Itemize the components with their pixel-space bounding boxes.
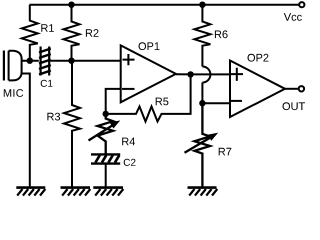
label R2 [86,29,99,37]
wire: MIC upper terminal to node A [21,60,39,62]
wire: OP2 output [285,88,299,90]
wire: MIC lower terminal to ground [21,74,30,187]
junction: R6 top on Vcc rail [199,1,205,7]
ground (MIC) [16,188,45,196]
label OP2 [248,54,269,62]
label R1 [41,24,54,32]
node A: junction MIC/R1/C1 [27,58,33,64]
label Vcc [284,13,302,21]
terminal Vcc [299,2,304,7]
variable resistor R7 [185,103,219,186]
label R4 [122,138,135,146]
ground (C2) [93,188,123,196]
label R5 [156,98,169,106]
wire: Vcc top rail [30,4,300,6]
wire: C1 to node B and OP1 + input [50,60,121,62]
resistor R1 [22,5,38,61]
node D: junction OP1 out / R5 / OP2+ [187,71,193,77]
junction: R2 top on Vcc rail [68,1,74,7]
node C: feedback junction R5/R4/OP1- [103,111,109,117]
wire: node E to OP2 - input [202,102,230,104]
wire: node D to OP2 + input (passes under hop) [191,73,230,75]
resistor R5 [106,75,191,122]
label R6 [215,30,228,38]
resistor R2 [64,5,80,61]
terminal OUT [299,86,304,91]
wire: C2 to ground [105,164,107,187]
op-amp OP1 [121,45,176,102]
ground (R3) [61,188,91,196]
node B: junction C1/R2/R3/OP1+ [68,58,74,64]
capacitor C1 [39,47,51,76]
wire: OP1 output to node D [176,73,191,75]
capacitor C2 [91,154,120,163]
variable resistor R4 [89,114,121,154]
wire: OP1 inverting input from feedback node [106,89,121,114]
label OUT [283,102,306,110]
microphone MIC body [3,51,22,81]
wire: hop to node E [201,83,203,104]
label C2 [124,159,136,166]
wire hop: R6 line over OP1-OP2 wire [202,67,210,83]
op-amp OP2 [230,61,285,118]
label OP1 [139,42,160,50]
label R3 [47,113,60,121]
ground (R7) [188,188,218,196]
label MIC [4,89,23,97]
label R7 [219,148,232,156]
label C1 [41,80,53,87]
resistor R6 [194,5,210,67]
resistor R3 [64,61,80,187]
node E: junction R6/R7/OP2- [199,100,205,106]
